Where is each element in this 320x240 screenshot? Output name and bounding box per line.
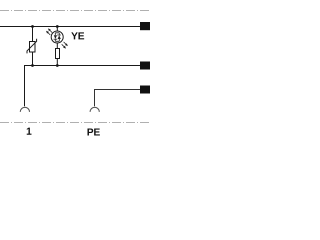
contact 1 socket arc — [20, 107, 29, 112]
node junction resistor/net2 — [56, 64, 59, 67]
LED emission arrow lower-right a — [64, 42, 68, 46]
wire varistor branch upper — [32, 27, 34, 42]
label YE — [71, 32, 84, 39]
enclosure boundary dash-dot line top — [0, 10, 150, 12]
wire resistor to net 2 — [56, 59, 58, 66]
LED emission arrow upper-left a — [49, 29, 53, 33]
LED internal connecting rails — [55, 33, 59, 42]
node junction LED/top wire — [56, 25, 59, 28]
enclosure boundary dash-dot line bottom — [0, 122, 150, 124]
label 1 — [27, 128, 32, 135]
LED emission arrow lower-right b — [62, 44, 66, 48]
wire net 2 horizontal with corner down to contact 1 — [25, 66, 141, 107]
contact PE socket arc — [90, 107, 99, 112]
varistor RV1 diagonal stroke — [27, 39, 37, 54]
terminal 1 (black box, top right) — [140, 22, 150, 30]
node junction varistor/net2 — [31, 64, 34, 67]
wire LED to resistor — [56, 43, 58, 49]
node junction varistor/top wire — [31, 25, 34, 28]
terminal 2 (black box, middle right) — [140, 62, 150, 70]
wire net PE horizontal with corner down to PE contact — [95, 90, 141, 107]
LED internal antiparallel diode right (cathode up) — [58, 35, 61, 39]
varistor RV1 body — [30, 42, 36, 53]
label PE — [87, 128, 99, 135]
resistor R1 body — [56, 49, 60, 59]
LED internal antiparallel diode left (cathode down) — [54, 35, 57, 39]
wire LED branch upper — [56, 27, 58, 32]
wire net L1 top horizontal — [0, 26, 140, 28]
terminal 3 (black box, PE right) — [140, 86, 150, 94]
LED lamp circle — [51, 31, 63, 43]
wire varistor branch lower — [32, 52, 34, 66]
LED emission arrow upper-left b — [47, 31, 51, 35]
